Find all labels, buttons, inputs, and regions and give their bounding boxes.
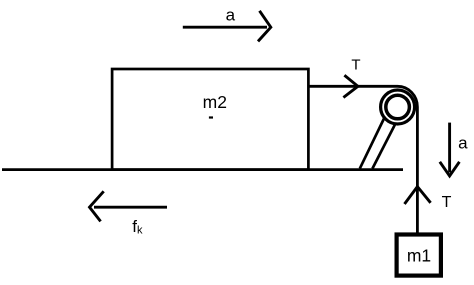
pulley support rod right line <box>372 103 406 169</box>
arrow fk shaft pointing left <box>94 206 167 209</box>
svg-text:a: a <box>226 5 236 24</box>
svg-text:m2: m2 <box>203 92 227 112</box>
arrow a right shaft pointing down <box>448 123 451 173</box>
arrow a right head <box>440 162 460 176</box>
svg-text:T: T <box>351 57 360 74</box>
wire table surface line <box>2 168 403 171</box>
pulley inner circle <box>386 95 410 119</box>
svg-text:m1: m1 <box>407 246 431 266</box>
arrow T head on vertical rope pointing up <box>405 187 431 204</box>
block m1 rectangle <box>397 235 441 276</box>
arrow T head on horizontal rope <box>343 75 358 97</box>
wire rope from block m2 over pulley down to mass m1 <box>308 86 417 232</box>
dash mark under m2 <box>209 116 213 118</box>
pulley support rod left line <box>360 103 392 169</box>
arrow a top head <box>258 11 271 42</box>
arrow fk head <box>90 191 104 221</box>
svg-text:a: a <box>458 134 468 153</box>
pulley outer circle <box>381 90 415 124</box>
svg-text:T: T <box>442 194 452 211</box>
arrow a top shaft <box>183 26 267 29</box>
block m2 rectangle <box>112 69 308 170</box>
